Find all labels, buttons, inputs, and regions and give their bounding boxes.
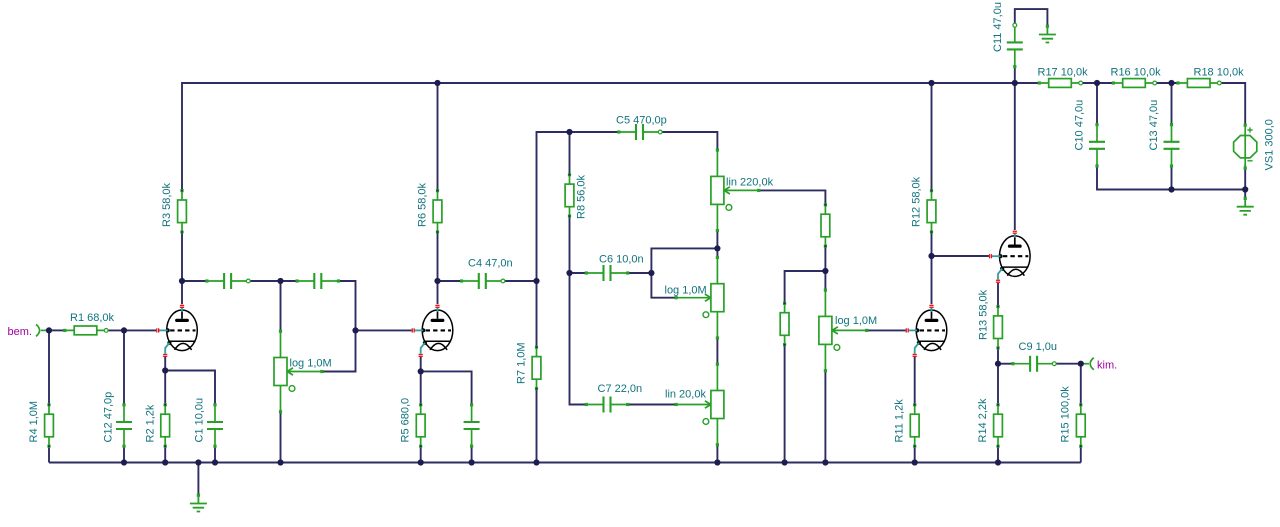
svg-text:log 1,0M: log 1,0M — [290, 358, 332, 370]
capacitor C13 47,0u — [1164, 123, 1180, 168]
wire V3 anode up — [931, 256, 933, 304]
wire R12 to bus — [931, 83, 933, 191]
wire C9 to node K — [1054, 363, 1081, 365]
ground symbol 3 — [1237, 197, 1254, 215]
triode V3 — [906, 305, 947, 357]
node input junction — [46, 327, 52, 333]
resistor R6 58,0k — [433, 189, 442, 234]
voltage source VS1 300,0 — [1234, 124, 1257, 170]
bus junction at C13 — [1168, 80, 1174, 86]
svg-text:R13 58,0k: R13 58,0k — [978, 289, 990, 340]
potentiometer P3 log 1,0M — [675, 256, 724, 340]
wire cap3 to V2 grid — [322, 281, 356, 372]
wire V1 anode up — [181, 281, 183, 304]
svg-text:bem.: bem. — [8, 326, 32, 338]
potentiometer P1 log 1,0M — [274, 330, 323, 414]
svg-text:R11 1,2k: R11 1,2k — [894, 399, 906, 443]
svg-text:C12 47,0p: C12 47,0p — [103, 392, 115, 443]
resistor R5 680,0 — [416, 403, 425, 448]
node K junction — [1078, 361, 1084, 367]
rail junction at Cc — [469, 459, 475, 465]
svg-text:C5 470,0p: C5 470,0p — [616, 115, 667, 127]
wire node I to V4 grid — [932, 255, 989, 257]
wire R6 to bus — [437, 83, 439, 191]
node V2 grid junction — [352, 327, 358, 333]
svg-text:R6 58,0k: R6 58,0k — [417, 182, 429, 227]
rail junction at P1 — [277, 459, 283, 465]
wire top supply bus — [182, 83, 1039, 191]
svg-text:R18 10,0k: R18 10,0k — [1194, 67, 1245, 79]
wire grid node to V2 — [356, 329, 412, 331]
resistor R7 1,0M — [532, 346, 541, 391]
svg-text:C9 1,0u: C9 1,0u — [1019, 341, 1058, 353]
rail junction at P4 — [714, 459, 720, 465]
bus junction at R6 — [434, 80, 440, 86]
wire node C down to R7 — [536, 281, 538, 347]
wire node E down to C7 line — [570, 273, 587, 405]
wire cathode node to C1 — [165, 371, 215, 405]
node V1 anode junction — [179, 278, 185, 284]
wire R1 to node A — [106, 329, 124, 331]
wire node J to C9 — [998, 363, 1013, 365]
wire node J to R14 — [997, 364, 999, 405]
potentiometer P5 log 1,0M — [819, 289, 868, 373]
wire node B down to pot P1 — [280, 281, 282, 331]
wire bottom ground rail — [49, 462, 1081, 464]
wire C13 to bottom line — [1171, 166, 1173, 190]
wire anode node to cap2 — [182, 280, 207, 282]
wire node F down to pot P3 wiper — [651, 273, 676, 298]
svg-text:log 1,0M: log 1,0M — [665, 285, 707, 297]
svg-text:R7 1,0M: R7 1,0M — [516, 342, 528, 384]
resistor R1 68,0k — [63, 326, 108, 335]
output connector kim. — [1079, 358, 1094, 370]
wire input to R1 — [49, 329, 65, 331]
wire bus R16-R18 segment — [1155, 82, 1179, 84]
wire V2 cathode node to R5 — [420, 371, 422, 404]
wire anode node to C4 — [438, 280, 462, 282]
wire C5 to pot P2 top — [660, 132, 717, 150]
wire cathode node to R2 — [164, 371, 166, 405]
wire R14 to rail — [997, 446, 999, 462]
node V2 cathode junction — [418, 368, 424, 374]
wire node D to R8 — [569, 132, 571, 175]
input connector bem. — [36, 324, 51, 336]
wire ground stem 1 — [197, 463, 199, 496]
resistor R16 10,0k — [1112, 79, 1157, 88]
wire C11 top to ground 2 — [1015, 9, 1048, 26]
capacitor C7 22,0n — [585, 397, 630, 413]
rail junction at R10 — [782, 459, 788, 465]
capacitor C12 47,0p — [116, 403, 132, 448]
wire C7 to pot P4 wiper — [628, 404, 676, 406]
resistor R18 10,0k — [1176, 79, 1221, 88]
rail junction at R14 — [995, 459, 1001, 465]
wire V4 cathode to R13 — [997, 283, 999, 307]
rail junction at C1 — [212, 459, 218, 465]
rail junction at R11 — [912, 459, 918, 465]
svg-text:C10 47,0u: C10 47,0u — [1074, 100, 1086, 151]
wire input node down to R4 — [48, 330, 50, 404]
resistor R13 58,0k — [994, 305, 1003, 350]
wire V2 anode node to R6 — [437, 232, 439, 281]
wire P2 wiper to R9 — [759, 190, 826, 204]
wire node B to cap3 — [281, 280, 298, 282]
svg-text:kim.: kim. — [1097, 360, 1117, 372]
svg-text:R12 58,0k: R12 58,0k — [911, 176, 923, 227]
svg-text:C6 10,0n: C6 10,0n — [599, 254, 644, 266]
svg-text:C4 47,0n: C4 47,0n — [468, 258, 513, 270]
wire C1 to rail — [214, 446, 216, 462]
bus junction at R12 — [928, 80, 934, 86]
wire R9 to node H — [824, 246, 826, 271]
wire node K to R15 — [1080, 364, 1082, 405]
wire V2 cathode node to bypass cap — [421, 371, 472, 404]
capacitor C4 47,0n — [460, 273, 505, 289]
bottom line junction at VS1 — [1242, 186, 1248, 192]
node H junction — [822, 268, 828, 274]
wire cap2 to node B — [248, 280, 280, 282]
resistor R10 — [780, 302, 789, 347]
capacitor C6 10,0n — [585, 265, 630, 281]
rail junction at P5 — [822, 459, 828, 465]
wire node I to R12 — [931, 232, 933, 256]
wire R4 to rail — [48, 446, 50, 462]
node C junction — [533, 278, 539, 284]
svg-text:R5 680,0: R5 680,0 — [400, 398, 412, 443]
wire node C up to C5 line — [537, 132, 570, 281]
svg-text:R14 2,2k: R14 2,2k — [977, 398, 989, 443]
wire bypass cap to rail — [471, 446, 473, 462]
wire bus R18 to VS1 — [1220, 83, 1246, 125]
ground symbol 1 — [190, 494, 207, 512]
bypass capacitor Cc — [464, 403, 480, 448]
wire C12 to rail — [123, 446, 125, 462]
wire V4 anode to bus — [1014, 83, 1016, 230]
triode V2 — [412, 305, 453, 357]
wire R7 to rail — [536, 389, 538, 463]
svg-text:R4 1,0M: R4 1,0M — [28, 401, 40, 443]
triode V1 — [156, 305, 197, 357]
svg-text:lin 220,0k: lin 220,0k — [726, 177, 774, 189]
triode V4 — [989, 231, 1030, 283]
wire C13 node to C13 — [1171, 83, 1173, 125]
wire bus R17-R16 segment — [1081, 82, 1114, 84]
wire pot P5 wiper to V3 grid — [867, 329, 906, 331]
wire node A to V1 grid — [124, 329, 156, 331]
wire VS1 to bottom line — [1244, 165, 1246, 189]
svg-text:R15 100,0k: R15 100,0k — [1060, 386, 1072, 443]
resistor R11 1,2k — [910, 403, 919, 448]
wire R15 to rail — [1080, 446, 1082, 462]
wire C11 to bus node — [1014, 67, 1016, 84]
node B junction — [277, 278, 283, 284]
resistor R14 2,2k — [994, 403, 1003, 448]
wire ground stem 3 — [1244, 190, 1246, 199]
wire R5 to rail — [420, 446, 422, 462]
wire pot P3 to pot P4 — [716, 338, 718, 364]
svg-text:C7 22,0n: C7 22,0n — [598, 383, 643, 395]
resistor R15 100,0k — [1076, 403, 1085, 448]
coupling capacitor Cb — [296, 273, 341, 289]
wire pot P5 to rail — [824, 371, 826, 463]
wire node H to pot P5 — [824, 271, 826, 290]
node V1 cathode junction — [162, 367, 168, 373]
ground symbol 2 — [1039, 25, 1056, 43]
resistor R17 10,0k — [1038, 79, 1083, 88]
rail junction at R7 — [533, 459, 539, 465]
wire V3 cathode to R11 — [914, 357, 916, 405]
wire C6 to node F — [628, 272, 652, 274]
svg-text:C11 47,0u: C11 47,0u — [992, 2, 1004, 52]
wire R10 to rail — [784, 345, 786, 463]
rail junction at ground — [195, 459, 201, 465]
wire R11 to rail — [914, 446, 916, 462]
node A junction — [121, 327, 127, 333]
wire V2 cathode down — [420, 357, 422, 372]
wire node E to C6 — [570, 272, 587, 274]
svg-text:lin 20,0k: lin 20,0k — [665, 389, 706, 401]
capacitor C5 470,0p — [617, 124, 662, 140]
node E junction — [566, 270, 572, 276]
wire pot P2 to node G — [716, 231, 718, 258]
rail junction at R2 — [162, 459, 168, 465]
svg-text:C13 47,0u: C13 47,0u — [1148, 100, 1160, 151]
wire V1 anode node to R3 — [181, 232, 183, 281]
wire R2 to rail — [164, 446, 166, 462]
svg-text:R17 10,0k: R17 10,0k — [1038, 67, 1089, 79]
node F junction — [648, 270, 654, 276]
resistor R12 58,0k — [927, 189, 936, 234]
svg-text:R8 56,0k: R8 56,0k — [576, 174, 588, 219]
wire V1 cathode down — [164, 357, 166, 371]
capacitor C9 1,0u — [1011, 356, 1056, 372]
wire pot P1 to rail — [280, 412, 282, 463]
resistor R8 56,0k — [565, 173, 574, 218]
node I junction — [928, 253, 934, 259]
wire C4 to node C — [503, 280, 537, 282]
resistor R9 — [821, 203, 830, 248]
coupling capacitor Ca — [205, 273, 250, 289]
wire node F up to pot P2 bottom node — [651, 248, 717, 273]
capacitor C11 47,0u — [1007, 23, 1023, 68]
node D junction — [566, 129, 572, 135]
bus junction at C10 — [1094, 80, 1100, 86]
resistor R4 1,0M — [45, 403, 54, 448]
wire C10 to bottom line — [1097, 166, 1245, 190]
rail junction at C12 — [121, 459, 127, 465]
svg-text:R3 58,0k: R3 58,0k — [161, 182, 173, 227]
bus junction at V4 anode — [1012, 80, 1018, 86]
svg-text:R2 1,2k: R2 1,2k — [145, 404, 157, 442]
wire R8 to node E — [569, 216, 571, 273]
svg-text:VS1 300,0: VS1 300,0 — [1264, 119, 1276, 170]
node V2 anode junction — [434, 278, 440, 284]
capacitor C10 47,0u — [1089, 123, 1105, 168]
wire node D to C5 — [570, 131, 619, 133]
potentiometer P2 lin 220,0k — [711, 149, 760, 233]
svg-text:C1 10,0u: C1 10,0u — [194, 398, 206, 443]
wire node H to R10 — [785, 271, 826, 303]
resistor R3 58,0k — [178, 189, 187, 234]
wire V2 anode up — [437, 281, 439, 304]
rail junction at R5 — [418, 459, 424, 465]
wire bus node to C10 — [1096, 83, 1098, 125]
resistor R2 1,2k — [161, 403, 170, 448]
capacitor C1 10,0u — [207, 403, 223, 448]
potentiometer P4 lin 20,0k — [675, 363, 724, 447]
node J junction — [995, 361, 1001, 367]
node G junction — [714, 245, 720, 251]
svg-text:R1 68,0k: R1 68,0k — [70, 312, 115, 324]
svg-text:log 1,0M: log 1,0M — [835, 315, 877, 327]
wire node A down to C12 — [123, 330, 125, 404]
svg-text:R16 10,0k: R16 10,0k — [1111, 67, 1162, 79]
bottom line junction at C13 — [1168, 186, 1174, 192]
wire pot P4 to rail — [716, 445, 718, 463]
wire R13 to node J — [997, 348, 999, 364]
